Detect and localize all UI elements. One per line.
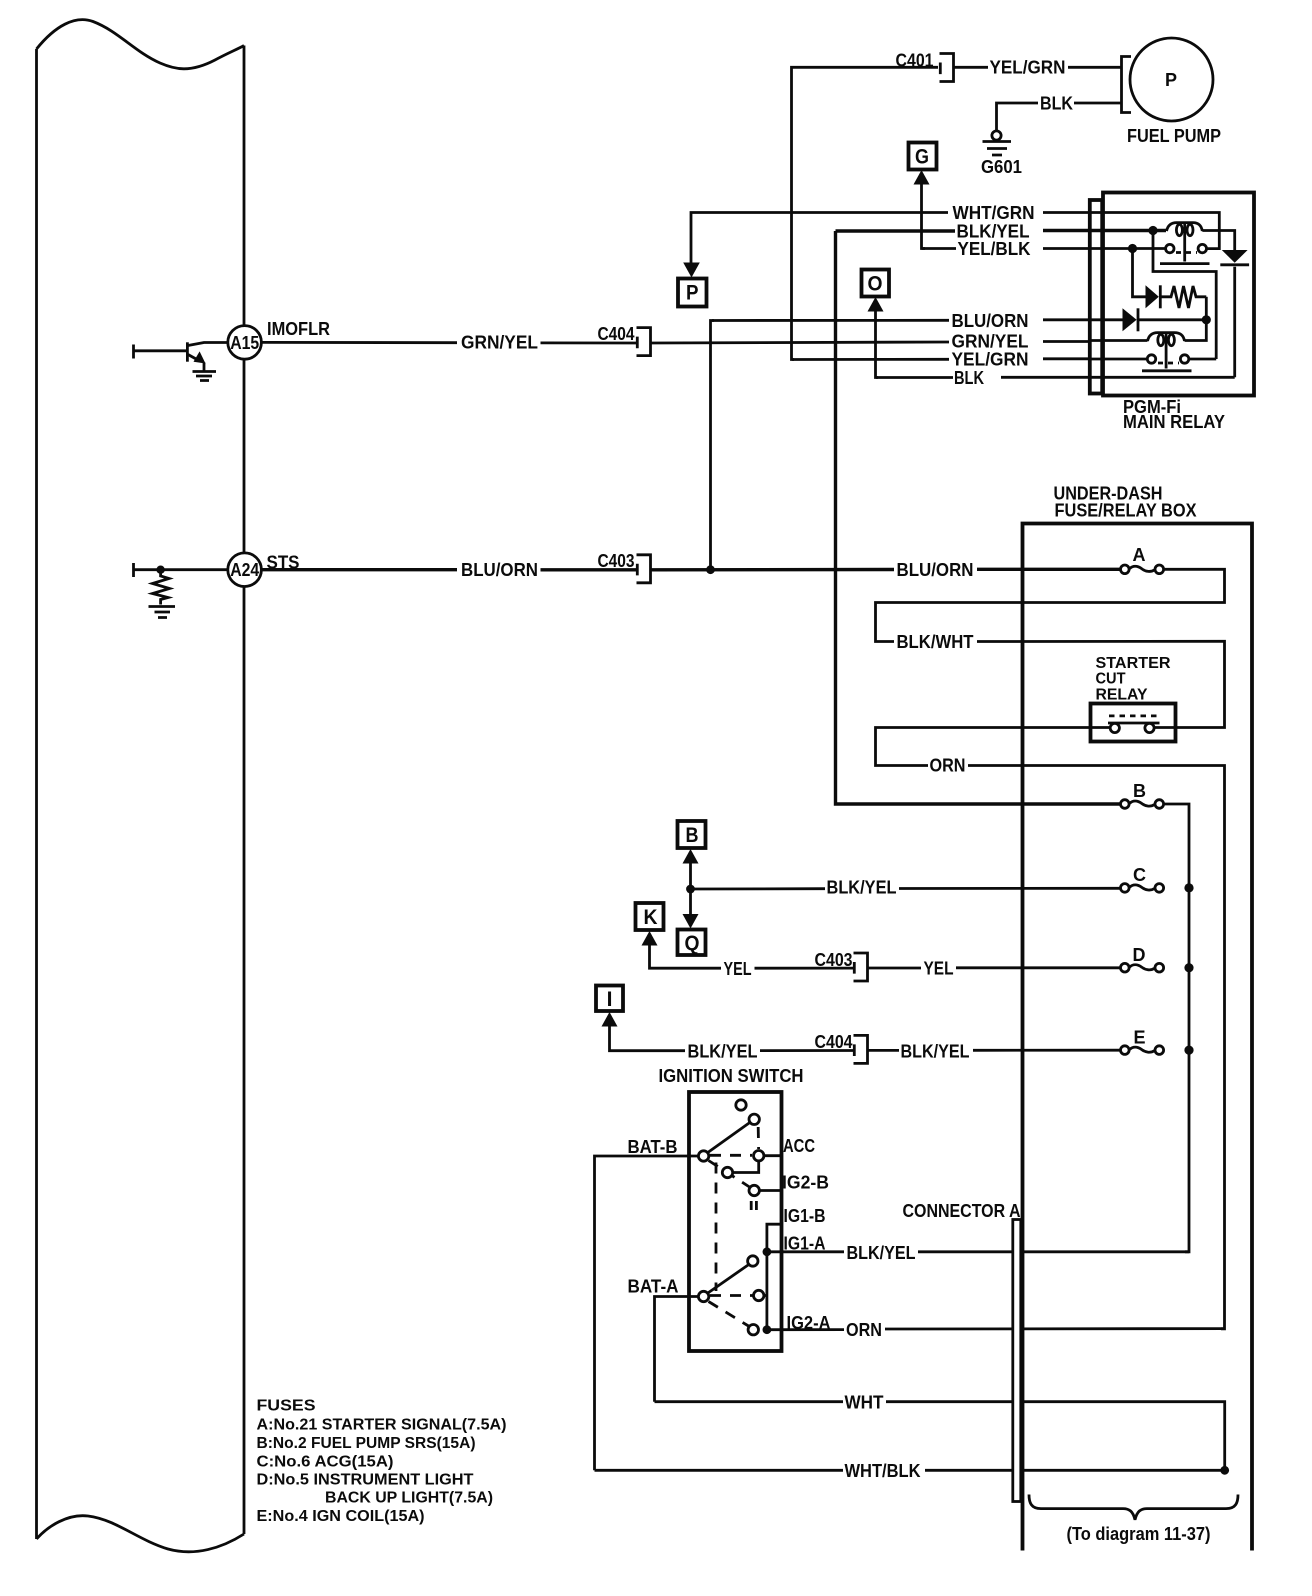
junction dot at resistor xyxy=(156,566,164,574)
relay BLU/ORN row xyxy=(1091,318,1123,321)
connector box Q xyxy=(678,930,706,956)
svg-text:G601: G601 xyxy=(981,157,1022,177)
transistor emitter wire to ground xyxy=(203,363,206,371)
junction dot fuse D out xyxy=(1184,963,1193,972)
transistor Q lead tick xyxy=(132,345,135,359)
svg-text:E: E xyxy=(1134,1028,1146,1048)
wire relay-2 right contact up xyxy=(1189,358,1216,361)
relay BLK row xyxy=(1091,376,1235,379)
wire stem B to junction xyxy=(689,861,692,889)
svg-text:FUSE/RELAY BOX: FUSE/RELAY BOX xyxy=(1055,501,1197,521)
svg-text:STARTER: STARTER xyxy=(1096,655,1171,672)
svg-text:D: D xyxy=(1133,945,1146,965)
ignition switch blade A xyxy=(705,1264,750,1295)
starter cut relay dashes xyxy=(1109,715,1157,718)
svg-text:C: C xyxy=(1133,865,1146,885)
A24 lead tick xyxy=(132,563,135,577)
rotor contact A mid xyxy=(754,1290,764,1300)
transistor Q body xyxy=(186,342,189,361)
relay-1 contact right xyxy=(1198,244,1206,252)
svg-text:GRN/YEL: GRN/YEL xyxy=(461,333,538,353)
junction dot BLK/YEL xyxy=(1148,226,1157,235)
dashed link BAT-A mid xyxy=(710,1294,753,1297)
wire coil1 to diode D3 xyxy=(1202,231,1234,251)
svg-text:K: K xyxy=(644,906,658,929)
svg-text:B: B xyxy=(686,824,699,847)
svg-text:I: I xyxy=(607,988,613,1011)
wire BLK/YEL row to relay xyxy=(836,229,1106,233)
contact IG2-B xyxy=(749,1185,759,1195)
wire YEL/GRN relay row xyxy=(792,357,1105,361)
svg-text:BAT-B: BAT-B xyxy=(628,1137,678,1157)
wire BLU/ORN from C403 to fuse box xyxy=(651,568,1120,572)
svg-text:BACK UP LIGHT(7.5A): BACK UP LIGHT(7.5A) xyxy=(325,1490,493,1507)
junction dot D2/R1 xyxy=(1202,315,1211,324)
ignition switch blade B xyxy=(705,1122,751,1155)
svg-text:B: B xyxy=(1133,781,1146,801)
wire junction to coil 2 xyxy=(1185,320,1207,341)
svg-text:ACC: ACC xyxy=(783,1136,815,1156)
relay-1 armature xyxy=(1183,224,1186,262)
wire stem junction to Q xyxy=(689,889,692,916)
blade B tip contact xyxy=(749,1114,759,1124)
fuse B xyxy=(1121,800,1164,809)
wire resistor to junction xyxy=(1205,297,1208,320)
wire BLK/YEL feed down to fuse B xyxy=(836,231,1120,804)
svg-text:O: O xyxy=(868,273,883,296)
svg-text:YEL: YEL xyxy=(724,959,752,979)
svg-text:BLU/ORN: BLU/ORN xyxy=(461,560,538,580)
position II mark xyxy=(751,1201,756,1210)
junction dot WHT/WHT-BLK xyxy=(1220,1466,1229,1475)
relay-2 contact right xyxy=(1180,355,1188,363)
arrow into G xyxy=(914,170,930,185)
wire BLK relay row xyxy=(876,376,1105,379)
svg-text:FUSES: FUSES xyxy=(257,1398,316,1415)
dashed link BAT-B to ACC xyxy=(710,1154,752,1157)
svg-text:BLK: BLK xyxy=(954,368,984,388)
starter cut relay contact left xyxy=(1110,723,1119,732)
ground (chassis) at transistor xyxy=(193,370,217,373)
fuse A xyxy=(1121,565,1164,574)
starter cut relay contact bar xyxy=(1091,726,1176,729)
wire YEL/BLK row xyxy=(922,247,1106,250)
relay-2 contact dashes xyxy=(1158,362,1179,365)
wire YEL/GRN feed from C401 down to relay row xyxy=(792,67,939,359)
relay-2 armature xyxy=(1165,334,1168,369)
junction dot IG2-A xyxy=(763,1325,772,1334)
arrow into P xyxy=(683,263,700,278)
node A15 xyxy=(228,326,262,360)
wire GRN/YEL from C404 to PGM-FI relay xyxy=(651,342,1105,344)
wire BLK/YEL to fuse C xyxy=(691,887,1120,891)
wire IG2-B out xyxy=(760,1189,782,1192)
wire D3 to BLK row xyxy=(1233,267,1236,378)
arrow into O xyxy=(868,297,884,312)
svg-text:BLK: BLK xyxy=(1040,94,1073,114)
wire YEL to fuse D xyxy=(868,966,1120,969)
ignition switch top terminal xyxy=(736,1100,746,1110)
wire fuse B to bus xyxy=(1163,804,1189,1252)
connector box P xyxy=(678,279,707,307)
svg-text:C401: C401 xyxy=(896,51,934,71)
resistor to ground xyxy=(153,572,170,605)
starter cut relay contact right xyxy=(1145,723,1154,732)
diode D2 xyxy=(1123,308,1137,331)
diode D3 (down) xyxy=(1222,250,1248,263)
wire BLK/YEL to fuse E xyxy=(868,1049,1120,1052)
relay coil 1 xyxy=(1167,223,1203,231)
connector box K xyxy=(636,903,664,930)
relay GRN/YEL row xyxy=(1091,339,1148,342)
svg-text:BLK/YEL: BLK/YEL xyxy=(827,878,897,898)
wire dot to relay-2 contact xyxy=(1153,231,1216,360)
svg-text:C404: C404 xyxy=(598,324,635,344)
svg-text:BLK/YEL: BLK/YEL xyxy=(901,1042,970,1062)
svg-text:C404: C404 xyxy=(815,1032,853,1052)
under-dash fuse/relay box outline xyxy=(1023,524,1253,1551)
wire YEL/GRN C401 to fuel pump xyxy=(954,66,1121,69)
wire BLK/YEL row from I xyxy=(610,1024,854,1051)
wire BLU/ORN from A24 to C403 xyxy=(261,568,636,571)
svg-text:WHT: WHT xyxy=(845,1393,884,1413)
contact BAT-B xyxy=(698,1151,708,1161)
wire harness band (torn page shape) xyxy=(37,20,245,1552)
connector C403 (fuse D row) xyxy=(854,953,868,981)
junction dot fuse E out xyxy=(1184,1046,1193,1055)
svg-text:P: P xyxy=(686,282,699,305)
svg-text:BLK/WHT: BLK/WHT xyxy=(897,632,974,652)
transistor Q emitter arrowhead xyxy=(194,351,206,363)
svg-text:BAT-A: BAT-A xyxy=(628,1277,679,1297)
transistor Q emitter xyxy=(188,355,197,360)
svg-text:WHT/BLK: WHT/BLK xyxy=(845,1461,921,1481)
dashed link BAT-B to IG2-B xyxy=(709,1161,750,1188)
arrow into K xyxy=(642,931,658,946)
fuel pump motor P xyxy=(1130,38,1213,121)
svg-text:BLU/ORN: BLU/ORN xyxy=(897,560,974,580)
svg-text:A24: A24 xyxy=(230,560,259,580)
fuel pump connector bracket xyxy=(1122,57,1132,113)
rotor contact IG2-B link xyxy=(722,1167,732,1177)
fuse D xyxy=(1121,963,1164,972)
junction dot IG1-A xyxy=(763,1247,772,1256)
svg-text:MAIN RELAY: MAIN RELAY xyxy=(1123,412,1225,432)
svg-text:ORN: ORN xyxy=(930,756,966,776)
wire fuse A to loop xyxy=(876,569,1225,727)
relay BLK/YEL row xyxy=(1091,229,1166,232)
svg-text:C403: C403 xyxy=(598,551,635,571)
wire BLK stem from O xyxy=(876,309,879,378)
wire stem to P (part of WHT/GRN) xyxy=(690,248,693,265)
svg-text:YEL/BLK: YEL/BLK xyxy=(958,239,1031,259)
svg-text:BLK/YEL: BLK/YEL xyxy=(688,1042,758,1062)
wire GRN/YEL from A15 to C404 xyxy=(261,341,636,344)
svg-text:D:No.5 INSTRUMENT LIGHT: D:No.5 INSTRUMENT LIGHT xyxy=(257,1472,474,1489)
svg-text:YEL/GRN: YEL/GRN xyxy=(990,58,1066,78)
contact ACC xyxy=(754,1151,764,1161)
arrow into Q xyxy=(683,914,699,929)
ground G601 xyxy=(992,131,1001,140)
svg-text:B:No.2 FUEL PUMP SRS(15A): B:No.2 FUEL PUMP SRS(15A) xyxy=(257,1435,476,1452)
fuse C xyxy=(1121,884,1164,893)
node A24 xyxy=(134,568,227,571)
contact IG2-A xyxy=(748,1325,758,1335)
junction dot YEL/BLK xyxy=(1128,244,1137,253)
relay-2 contact left xyxy=(1147,355,1155,363)
relay-1 contact left xyxy=(1166,244,1174,252)
wire ORN loop xyxy=(876,728,1225,1329)
connector C404 (fuse E row) xyxy=(854,1035,868,1063)
internal bus IG1-A to IG2-A xyxy=(766,1252,769,1330)
svg-text:A15: A15 xyxy=(230,333,259,353)
connector A bar xyxy=(1013,1220,1021,1502)
svg-text:C:No.6 ACG(15A): C:No.6 ACG(15A) xyxy=(257,1454,394,1471)
relay YEL/BLK row xyxy=(1091,247,1166,250)
svg-text:A:No.21 STARTER SIGNAL(7.5A): A:No.21 STARTER SIGNAL(7.5A) xyxy=(257,1417,507,1434)
svg-text:IMOFLR: IMOFLR xyxy=(267,319,330,339)
svg-text:P: P xyxy=(1165,70,1177,90)
svg-text:CUT: CUT xyxy=(1096,671,1126,688)
ground at A24 resistor xyxy=(149,605,176,608)
svg-text:IG1-B: IG1-B xyxy=(784,1206,826,1226)
svg-text:CONNECTOR A: CONNECTOR A xyxy=(903,1201,1021,1221)
svg-text:A: A xyxy=(1133,545,1146,565)
connector box O xyxy=(862,270,890,297)
wire WHT/BLK row xyxy=(595,1469,1225,1472)
svg-text:C403: C403 xyxy=(815,950,853,970)
relay YEL/GRN row xyxy=(1091,358,1147,361)
svg-text:RELAY: RELAY xyxy=(1096,687,1149,704)
resistor R1 xyxy=(1160,286,1206,308)
svg-text:FUEL PUMP: FUEL PUMP xyxy=(1127,126,1221,146)
svg-text:WHT/GRN: WHT/GRN xyxy=(953,203,1035,223)
connector C404 (A15 row) xyxy=(637,328,651,356)
wire IG1-B xyxy=(767,1224,782,1252)
wire WHT row xyxy=(655,1402,1225,1471)
wire BAT-B feed xyxy=(595,1156,699,1470)
junction dot fuse C out xyxy=(1184,883,1193,892)
wire BLU/ORN relay row xyxy=(712,318,1105,322)
wire ACC out xyxy=(764,1154,782,1157)
wire YEL row from K xyxy=(650,943,854,968)
svg-text:BLU/ORN: BLU/ORN xyxy=(952,311,1029,331)
svg-text:G: G xyxy=(915,145,929,168)
PGM-FI relay connector bar xyxy=(1090,200,1102,394)
svg-text:YEL/GRN: YEL/GRN xyxy=(952,350,1029,370)
junction node at x711 xyxy=(706,565,715,574)
diode D1 xyxy=(1146,285,1159,308)
wire D2 to junction xyxy=(1138,318,1206,321)
transistor Q (immobilizer) base lead xyxy=(134,349,186,352)
blade A tip contact IG1-A xyxy=(748,1256,758,1266)
relay coil 2 xyxy=(1148,333,1185,341)
connector box I xyxy=(596,986,623,1012)
brace (to diagram) xyxy=(1029,1495,1238,1520)
wire BLK from fuel pump to ground xyxy=(997,103,1122,131)
fuse E xyxy=(1121,1046,1164,1055)
wire WHT/GRN row xyxy=(691,213,1105,249)
wire YEL/BLK stem from G xyxy=(922,182,926,249)
svg-text:BLK/YEL: BLK/YEL xyxy=(847,1243,916,1263)
junction dot B/Q xyxy=(686,885,695,894)
PGM-FI main relay box xyxy=(1103,193,1254,396)
transistor Q collector xyxy=(188,343,227,346)
wire YEL/BLK dot to diode D1 xyxy=(1133,249,1146,297)
svg-text:(To diagram 11-37): (To diagram 11-37) xyxy=(1067,1524,1211,1544)
svg-text:YEL: YEL xyxy=(924,959,954,979)
svg-text:Q: Q xyxy=(685,932,700,955)
svg-text:IGNITION SWITCH: IGNITION SWITCH xyxy=(659,1066,804,1086)
wire BLU/ORN vertical link to relay row xyxy=(711,321,715,570)
connector box G xyxy=(909,143,937,170)
starter cut relay box xyxy=(1091,704,1176,742)
arrow into I xyxy=(602,1012,618,1027)
dashed link BAT-A to IG2-A xyxy=(709,1302,749,1327)
relay-1 contact dashes xyxy=(1176,251,1197,254)
contact BAT-A xyxy=(698,1291,708,1301)
wire BAT-A feed xyxy=(655,1297,699,1402)
arrow into B xyxy=(683,849,699,864)
svg-text:GRN/YEL: GRN/YEL xyxy=(952,331,1029,351)
wire ORN from IG2-A xyxy=(767,1329,1225,1330)
relay U1 internal wires WHT/GRN row xyxy=(1091,213,1219,249)
ignition switch box xyxy=(689,1092,782,1351)
connector C403 (A24 row) xyxy=(637,555,651,583)
connector box B xyxy=(678,821,706,848)
connector C401 xyxy=(940,54,954,82)
dashed link BAT-B to BAT-A xyxy=(715,1163,718,1292)
dashed link tip to ACC xyxy=(757,1127,760,1149)
svg-text:E:No.4 IGN COIL(15A): E:No.4 IGN COIL(15A) xyxy=(257,1508,425,1525)
svg-text:ORN: ORN xyxy=(846,1320,882,1340)
svg-text:IG2-B: IG2-B xyxy=(782,1173,829,1193)
wire BLK/YEL from IG1-A to fuse bus xyxy=(767,1250,1189,1253)
